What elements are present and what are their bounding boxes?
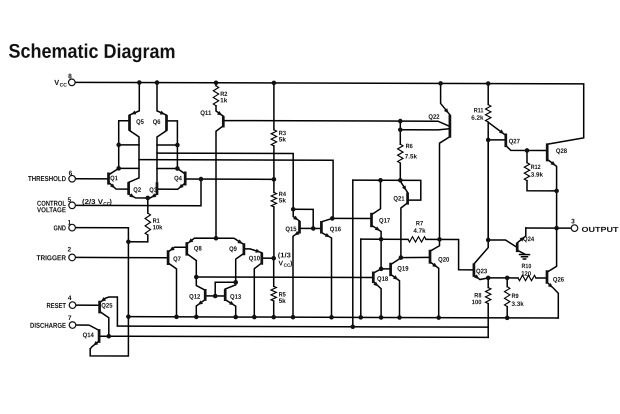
svg-text:Q14: Q14 <box>83 332 94 339</box>
svg-text:GND: GND <box>54 223 67 232</box>
svg-text:R11: R11 <box>474 107 484 114</box>
svg-text:1: 1 <box>68 220 72 227</box>
svg-text:Q28: Q28 <box>556 148 567 155</box>
svg-text:5k: 5k <box>279 198 287 205</box>
svg-text:R7: R7 <box>416 220 424 227</box>
svg-text:): ) <box>290 260 292 267</box>
svg-text:Q10: Q10 <box>249 255 260 262</box>
svg-text:Q6: Q6 <box>153 119 161 126</box>
svg-text:6: 6 <box>69 170 73 177</box>
svg-text:Q12: Q12 <box>189 294 200 301</box>
svg-text:VOLTAGE: VOLTAGE <box>37 205 66 214</box>
svg-text:Q23: Q23 <box>476 268 487 275</box>
svg-text:1k: 1k <box>220 97 228 104</box>
svg-text:Q13: Q13 <box>230 294 241 301</box>
svg-text:8: 8 <box>68 73 72 80</box>
svg-text:DISCHARGE: DISCHARGE <box>30 321 66 330</box>
svg-text:Q5: Q5 <box>136 119 144 126</box>
svg-text:Q18: Q18 <box>377 276 388 283</box>
svg-text:4.7k: 4.7k <box>413 228 426 235</box>
svg-text:(1/3: (1/3 <box>278 252 291 259</box>
svg-text:Q25: Q25 <box>101 303 112 310</box>
svg-text:Q4: Q4 <box>174 175 182 182</box>
svg-text:Q3: Q3 <box>149 187 157 194</box>
svg-text:Q2: Q2 <box>133 187 141 194</box>
svg-text:Q1: Q1 <box>110 175 118 182</box>
svg-text:): ) <box>110 199 112 206</box>
svg-text:Q22: Q22 <box>428 114 439 121</box>
svg-text:Q11: Q11 <box>200 110 211 117</box>
svg-text:Q19: Q19 <box>397 266 408 273</box>
svg-text:Q15: Q15 <box>285 226 296 233</box>
svg-text:Q27: Q27 <box>509 138 520 145</box>
svg-text:Q7: Q7 <box>173 256 181 263</box>
svg-text:Q24: Q24 <box>523 236 534 243</box>
svg-text:Q16: Q16 <box>330 226 341 233</box>
svg-text:(2/3 V: (2/3 V <box>82 199 103 206</box>
svg-text:5: 5 <box>68 197 72 204</box>
svg-text:R12: R12 <box>531 164 541 171</box>
svg-text:V: V <box>54 78 59 87</box>
svg-text:120: 120 <box>521 271 531 278</box>
svg-text:Q20: Q20 <box>438 257 449 264</box>
svg-text:R6: R6 <box>406 143 414 150</box>
svg-text:R10: R10 <box>522 263 532 270</box>
svg-text:Q17: Q17 <box>379 218 390 225</box>
svg-text:100: 100 <box>472 299 482 306</box>
svg-text:Q8: Q8 <box>194 245 202 252</box>
svg-text:THRESHOLD: THRESHOLD <box>28 174 66 183</box>
svg-text:Q21: Q21 <box>393 196 404 203</box>
svg-text:CC: CC <box>60 82 68 88</box>
svg-text:5k: 5k <box>279 137 287 144</box>
svg-text:5k: 5k <box>279 298 287 305</box>
svg-text:3.9k: 3.9k <box>531 172 544 179</box>
svg-text:3: 3 <box>571 218 575 225</box>
svg-text:Schematic Diagram: Schematic Diagram <box>9 41 176 64</box>
svg-text:6.2k: 6.2k <box>471 115 484 122</box>
svg-text:Q9: Q9 <box>229 246 237 253</box>
svg-text:7: 7 <box>68 315 72 322</box>
svg-text:RESET: RESET <box>47 301 67 310</box>
svg-text:10k: 10k <box>153 224 163 231</box>
svg-text:Q26: Q26 <box>553 277 564 284</box>
svg-text:4: 4 <box>68 295 72 302</box>
svg-text:2: 2 <box>68 247 72 254</box>
svg-text:OUTPUT: OUTPUT <box>582 225 620 234</box>
svg-text:3.3k: 3.3k <box>512 301 525 308</box>
svg-text:R9: R9 <box>512 293 520 300</box>
svg-text:TRIGGER: TRIGGER <box>37 253 67 262</box>
svg-text:7.5k: 7.5k <box>405 154 418 161</box>
